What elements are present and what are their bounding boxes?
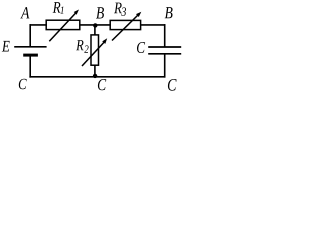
node label B (top middle) bbox=[96, 7, 104, 18]
wire: top rail from R1 right terminal to node B junction to R3 left terminal bbox=[79, 24, 110, 26]
capacitor C top plate bbox=[148, 46, 181, 48]
label C (capacitor) bbox=[137, 42, 145, 53]
node label C (bottom right) bbox=[168, 79, 177, 91]
wire: bottom rail from node C (left) to node C (right) bbox=[29, 76, 165, 78]
label R2 bbox=[76, 40, 88, 53]
node label A bbox=[20, 7, 29, 18]
label R1 bbox=[53, 2, 64, 14]
capacitor C bottom plate bbox=[148, 53, 181, 55]
resistor R3 (variable rheostat box) bbox=[110, 12, 141, 41]
wire: top rail from node A corner to R1 left terminal bbox=[30, 24, 47, 26]
wire: right vertical, capacitor bottom plate down to bottom-right corner C bbox=[164, 54, 166, 78]
junction dot at node B bbox=[93, 23, 97, 27]
wire: left vertical, node A down to battery positive plate bbox=[29, 24, 31, 47]
wire: top rail from R3 right terminal to top-right corner bbox=[140, 24, 165, 26]
resistor R2 (variable rheostat box, vertical) bbox=[82, 35, 107, 66]
wire: right vertical, top-right corner B down to capacitor top plate bbox=[164, 24, 166, 47]
label R3 bbox=[114, 3, 126, 16]
wire: node B junction down to R2 top terminal bbox=[94, 25, 96, 36]
node label C (bottom left) bbox=[19, 79, 27, 90]
label E (battery emf) bbox=[2, 41, 10, 52]
battery E negative plate (short thick) bbox=[23, 54, 38, 57]
wire: R2 bottom terminal down to bottom rail node C bbox=[94, 65, 96, 77]
battery E positive plate (long thin) bbox=[14, 46, 46, 48]
node label B (top right) bbox=[165, 7, 173, 18]
junction dot at bottom node C bbox=[93, 74, 97, 78]
resistor R1 (variable rheostat box) bbox=[46, 10, 80, 42]
node label C (bottom middle) bbox=[98, 79, 106, 90]
wire: left vertical, battery negative down to bottom-left corner C bbox=[29, 55, 31, 78]
